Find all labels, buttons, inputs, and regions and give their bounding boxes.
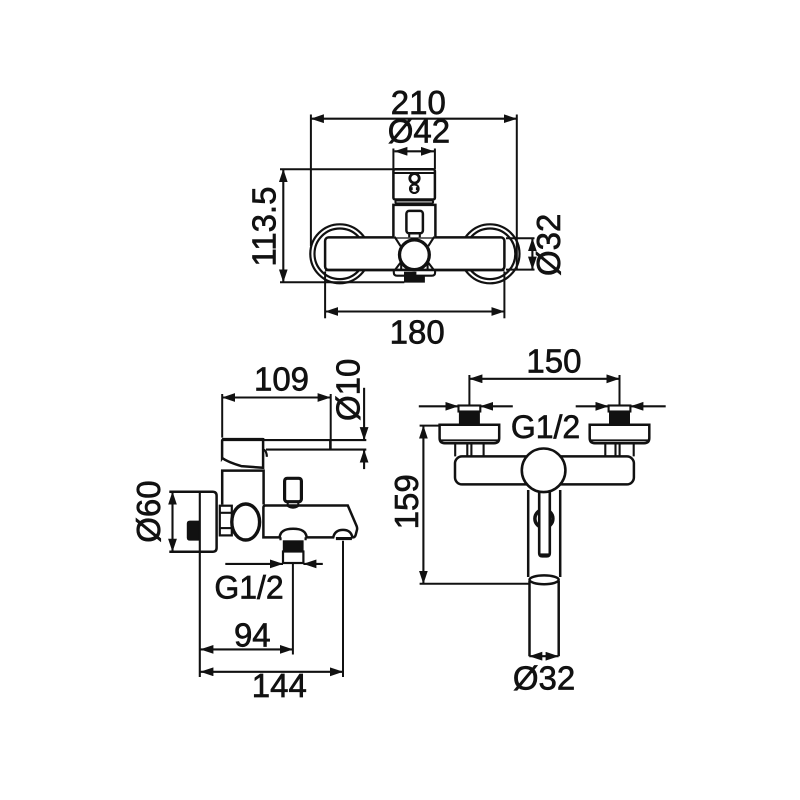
shower outlet strip (black) [336, 537, 352, 540]
diverter knob [285, 478, 302, 501]
spout (side view) [263, 506, 357, 538]
dimension 144 line [200, 671, 343, 673]
handle tube upper (rear view) [528, 490, 560, 577]
spout shoulder right (below bar) [428, 262, 435, 272]
handle base top edge (thick) [222, 438, 263, 441]
svg-text:Ø42: Ø42 [388, 113, 450, 150]
dimension Ø32 extension bottom [506, 269, 535, 271]
lever rest foot [409, 233, 420, 237]
left connector stem [455, 443, 483, 456]
thread line 2 [220, 527, 232, 529]
dimension 180 extension right [503, 272, 505, 319]
aerator lower band [283, 552, 303, 564]
svg-text:113.5: 113.5 [246, 187, 283, 267]
aerator body (black) [283, 540, 304, 551]
handle top feature line [393, 172, 435, 174]
handle base (side view) [222, 439, 263, 468]
svg-text:Ø32: Ø32 [530, 214, 567, 276]
dimension Ø32 arrows (outward) [529, 655, 558, 657]
dimension 180 line [325, 310, 504, 312]
dimension 180 extension left [324, 272, 326, 319]
dimension 159 line [422, 426, 424, 584]
escutcheon circle left (inner) [315, 229, 366, 280]
cartridge circle (top view) [400, 240, 430, 270]
escutcheon circle left (outer) [310, 224, 369, 283]
dimension 94 line [200, 648, 293, 650]
svg-text:G1/2: G1/2 [511, 409, 580, 445]
body bar (top view) [325, 237, 504, 270]
escutcheon (side view) [169, 492, 216, 552]
dimension 113.5 extension bottom [280, 281, 404, 283]
dimension Ø60 line [171, 492, 173, 552]
dimension Ø10 line lower with up arrow [363, 450, 365, 470]
dimension 210 extension line left [310, 115, 312, 247]
right connector white band [609, 406, 631, 412]
handle rod top line [263, 439, 366, 441]
left connector cup rim line [440, 439, 500, 441]
chamfer left from body to cartridge [395, 237, 401, 246]
dimension 210 extension line right [516, 115, 518, 271]
svg-text:150: 150 [526, 343, 581, 380]
escutcheon set screw (black) [187, 521, 200, 541]
dimension Ø42 extension left [392, 149, 394, 170]
svg-text:94: 94 [234, 616, 271, 653]
svg-text:180: 180 [390, 314, 445, 351]
svg-text:159: 159 [388, 474, 425, 529]
dimension 109 line [222, 396, 330, 398]
left connector nut width arrow right [480, 405, 513, 407]
dimension 150 line [469, 378, 619, 380]
dimension 150 extension left [468, 375, 470, 406]
handle ring detail [410, 174, 419, 183]
right connector cup rim line [590, 439, 650, 441]
diverter knob neck [288, 502, 299, 505]
handle tube ellipse rim [530, 575, 559, 584]
thread block [220, 506, 232, 536]
aerator dome pedestal [281, 537, 306, 540]
dimension 109 extension left [221, 394, 223, 438]
handle screw slot marks [410, 187, 412, 190]
left connector white band [459, 406, 481, 412]
diverter knob base bump [288, 506, 299, 508]
right connector nut width arrow right [630, 405, 665, 407]
dimension 109 extension right [330, 394, 332, 450]
svg-text:Ø60: Ø60 [130, 480, 167, 542]
handle rod bottom line [266, 449, 366, 451]
dimension Ø42 line with outward arrows [394, 150, 434, 152]
cartridge collar (side view) [222, 471, 263, 505]
spout shoulder left (below bar) [394, 262, 401, 272]
right connector nut (black) [609, 412, 630, 425]
dimension 144 extension right (spout end line) [342, 541, 344, 677]
dimension 210 line [311, 118, 517, 120]
handle slot [539, 490, 550, 556]
left connector cup [440, 425, 500, 444]
ball joint (bar end cap, side view) [232, 504, 260, 540]
handle tube lower [530, 581, 559, 656]
dimension 113.5 extension top [280, 168, 393, 170]
spout plate below bar [394, 271, 435, 276]
wall reference line / escutcheon inner edge [199, 492, 201, 677]
svg-text:109: 109 [254, 361, 309, 398]
left connector nut width arrow left [419, 405, 459, 407]
dimension Ø32 line [531, 238, 533, 269]
bar bottom edge redraw over plate [325, 269, 504, 272]
thread line 1 [220, 512, 232, 514]
body bar (rear view) [455, 456, 634, 484]
handle screw circle [535, 510, 553, 528]
handle rod fillet [264, 450, 267, 457]
svg-text:G1/2: G1/2 [214, 569, 283, 605]
right connector stem [605, 443, 633, 456]
cartridge circle (rear view) [522, 449, 566, 493]
dimension 113.5 line [282, 169, 284, 282]
dimension Ø32 extension top [506, 237, 535, 239]
G1/2 arrow left with tail [225, 563, 283, 565]
chamfer right from body to cartridge [428, 237, 434, 246]
right connector nut width arrow left [576, 405, 609, 407]
svg-text:Ø10: Ø10 [330, 359, 367, 421]
G1/2 arrow right with tail [303, 563, 322, 565]
handle screw detail [410, 184, 419, 193]
right connector cup [590, 425, 650, 444]
dimension 159 extension top [420, 425, 440, 427]
dimension 150 extension right [619, 375, 621, 406]
dimension 159 extension bottom [420, 583, 530, 585]
dimension Ø10 line upper with down arrow [363, 388, 365, 440]
svg-text:Ø32: Ø32 [513, 659, 575, 696]
lever rest (top view small rounded rect) [406, 211, 423, 233]
valve body block (top view) [393, 205, 435, 238]
escutcheon circle right (inner) [465, 229, 516, 280]
dimension Ø42 extension right [434, 149, 436, 170]
handle rod end [329, 440, 331, 450]
handle block (top view) [393, 169, 435, 199]
dimension 94 extension right (aerator centerline) [292, 564, 294, 655]
escutcheon circle right (outer) [461, 224, 520, 283]
aerator block (black, top view) [404, 272, 425, 283]
neck ring between handle and body [395, 201, 433, 204]
left connector nut (black) [459, 412, 480, 425]
handle slot bottom cap (thick) [540, 553, 549, 556]
